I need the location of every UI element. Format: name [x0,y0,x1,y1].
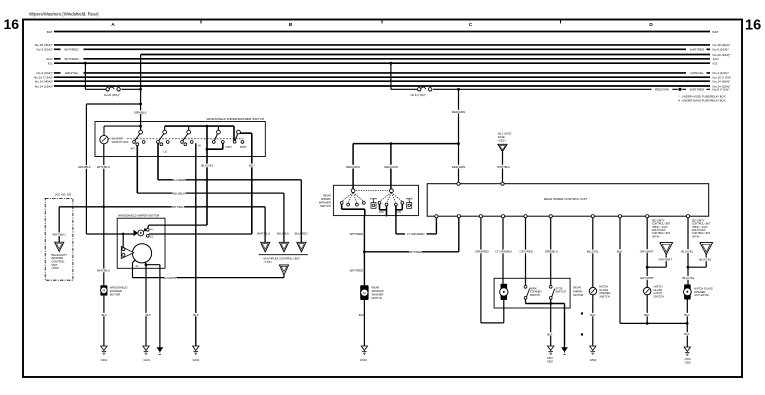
svg-text:A: A [111,22,115,28]
svg-text:M: M [363,291,366,295]
svg-text:WINDOW: WINDOW [372,289,384,293]
svg-text:<15/2>: <15/2> [498,138,507,142]
svg-text:GRY/RED: GRY/RED [520,250,533,254]
svg-text:REAR: REAR [573,286,581,290]
svg-text:ACC: ACC [46,57,53,61]
svg-text:No.8 (7.5A)*: No.8 (7.5A)* [411,93,427,97]
svg-text:BLU/YEL: BLU/YEL [201,164,213,168]
svg-text:G201: G201 [144,358,151,362]
svg-text:16: 16 [745,18,761,34]
svg-text:No.14 (40A)*: No.14 (40A)* [713,80,732,84]
svg-text:G301: G301 [101,358,108,362]
svg-text:WINDSHIELD WIPER MOTOR: WINDSHIELD WIPER MOTOR [118,214,160,218]
svg-text:No.8 (7.5A)*: No.8 (7.5A)* [713,88,731,92]
svg-text:GLASS: GLASS [599,288,608,292]
svg-text:BLU: BLU [249,164,255,168]
svg-text:WHT/RED: WHT/RED [64,57,79,61]
svg-text:GRN/BLK: GRN/BLK [78,165,91,169]
svg-text:G401: G401 [193,358,200,362]
svg-text:LT GRN/RED: LT GRN/RED [407,232,425,236]
svg-text:BLK: BLK [193,313,198,317]
svg-text:INT: INT [131,147,136,151]
svg-text:B: B [289,22,293,28]
svg-text:GLASS: GLASS [654,288,663,292]
svg-text:STANDBY: STANDBY [530,290,543,294]
svg-text:STOP: STOP [555,286,562,290]
svg-text:BLK: BLK [590,313,595,317]
svg-text:OPENER: OPENER [694,290,705,294]
svg-text:GRN/YEL: GRN/YEL [690,71,704,75]
svg-text:BLU/BLK: BLU/BLK [277,232,289,236]
svg-text:OFF: OFF [379,211,384,214]
svg-text:HATCH: HATCH [599,284,608,288]
svg-text:LO: LO [150,234,154,238]
svg-text:BLU/BLK: BLU/BLK [173,191,185,195]
svg-text:BLK: BLK [146,313,151,317]
svg-text:No.20 (20A)*: No.20 (20A)* [104,93,121,97]
svg-text:ACC: ACC [713,57,720,61]
svg-text:<B7/8>: <B7/8> [692,235,701,238]
svg-text:SWITCH: SWITCH [530,293,541,297]
svg-text:SWITCH: SWITCH [320,204,331,208]
svg-text:WHT/RED: WHT/RED [349,268,363,272]
svg-text:# : UNDER-DASH FUSE/RELAY BOX: # : UNDER-DASH FUSE/RELAY BOX [678,98,725,102]
svg-text:OPENER: OPENER [599,291,610,295]
svg-text:RED/GRN: RED/GRN [346,165,360,169]
svg-text:BLK: BLK [102,313,107,317]
svg-text:WHT/BLU: WHT/BLU [97,165,110,169]
svg-text:HATCH GLASS: HATCH GLASS [694,286,713,290]
svg-text:G304: G304 [360,358,367,362]
svg-text:WHT/BLU: WHT/BLU [97,269,110,273]
svg-text:LO: LO [164,149,168,153]
svg-text:REAR: REAR [323,193,331,197]
svg-text:MOTOR: MOTOR [110,293,120,297]
svg-text:ON: ON [397,211,401,214]
svg-text:BLK: BLK [547,332,552,336]
svg-text:G502: G502 [547,361,554,364]
svg-text:C: C [469,22,473,28]
svg-text:GRN/YEL: GRN/YEL [65,71,79,75]
svg-text:BLK: BLK [684,332,689,336]
svg-text:IG1: IG1 [48,62,53,66]
svg-text:MIST: MIST [226,145,233,149]
svg-text:REAR WIPER CONTROL UNIT: REAR WIPER CONTROL UNIT [544,197,588,201]
svg-text:WHT/RED: WHT/RED [409,250,423,254]
svg-text:BLK: BLK [684,313,689,317]
svg-text:IG1: IG1 [713,62,718,66]
svg-text:BAT: BAT [713,30,719,34]
svg-text:No.18 (30A)*: No.18 (30A)* [713,43,732,47]
svg-text:HI: HI [150,228,153,232]
svg-text:<17/5>: <17/5> [264,260,273,264]
svg-text:BLK: BLK [359,313,364,317]
svg-text:GRY/WHT: GRY/WHT [658,258,672,262]
svg-text:WIPER: WIPER [573,289,582,293]
svg-text:G504: G504 [590,358,597,362]
svg-text:No.9 (10A)*: No.9 (10A)* [37,48,54,52]
svg-text:BLU/YEL: BLU/YEL [587,250,599,254]
svg-text:Wipers/Washers (Windshield, Re: Wipers/Washers (Windshield, Rear) [29,12,99,17]
svg-text:BLK: BLK [617,249,623,253]
svg-text:WASHER: WASHER [112,136,124,140]
svg-text:G502: G502 [685,362,692,365]
svg-text:WHT/BLU: WHT/BLU [52,233,65,237]
svg-text:BLU/YEL: BLU/YEL [682,276,694,280]
svg-text:WHT/BLU: WHT/BLU [171,205,184,209]
svg-text:RED/GRN: RED/GRN [452,165,466,169]
svg-text:WIPER/: WIPER/ [321,197,331,201]
svg-text:<15/2>: <15/2> [51,266,60,270]
svg-text:No.14 (15A)*: No.14 (15A)* [35,84,54,88]
svg-text:SWITCH:OFF: SWITCH:OFF [112,140,129,144]
svg-text:MULTIPLEX CONTROL UNIT: MULTIPLEX CONTROL UNIT [264,256,301,260]
svg-text:MOTOR: MOTOR [372,296,382,300]
svg-text:ACTUATOR: ACTUATOR [694,293,708,297]
svg-text:(KG, KE, KF): (KG, KE, KF) [55,193,71,197]
svg-text:BLU/WHT: BLU/WHT [163,276,176,280]
svg-text:WASHER: WASHER [319,201,331,205]
svg-text:WHT/BLU: WHT/BLU [257,232,270,236]
svg-text:No.14 (40A)*: No.14 (40A)* [35,80,54,84]
svg-text:SWITCH: SWITCH [599,295,610,299]
svg-text:HATCH: HATCH [654,284,663,288]
svg-text:WASHER: WASHER [372,293,384,297]
svg-text:WHT/RED: WHT/RED [690,48,705,52]
svg-text:No.2 (10A)*: No.2 (10A)* [498,132,512,136]
svg-text:BLK: BLK [644,313,649,317]
svg-text:GRY/WHT: GRY/WHT [640,249,654,253]
svg-text:GRN/BLK: GRN/BLK [134,110,147,114]
svg-text:RED/GRN: RED/GRN [655,88,669,92]
svg-text:16: 16 [4,16,20,32]
svg-text:HI: HI [198,143,201,147]
svg-text:GRN/RED: GRN/RED [475,250,489,254]
svg-text:BLU/RED: BLU/RED [172,178,185,182]
svg-text:MOTOR: MOTOR [573,293,583,297]
svg-text:LATCH: LATCH [654,291,663,295]
svg-text:No.9 (10A)*: No.9 (10A)* [713,48,730,52]
svg-text:GRN/BLU: GRN/BLU [545,250,558,254]
svg-text:BLU/YEL: BLU/YEL [699,258,711,262]
svg-text:LT GRN/BLK: LT GRN/BLK [495,250,512,254]
svg-text:RED/GRN: RED/GRN [452,110,466,114]
svg-text:REAR: REAR [372,285,380,289]
svg-text:WHT/BLU: WHT/BLU [497,165,510,169]
svg-text:GRY/WHT: GRY/WHT [640,276,654,280]
svg-text:BLU/RED: BLU/RED [295,232,308,236]
svg-text:WINDSHIELD WIPER/WASHER SWITCH: WINDSHIELD WIPER/WASHER SWITCH [206,117,264,121]
svg-text:No.18 (30A)*: No.18 (30A)* [35,43,54,47]
svg-text:WHT/RED: WHT/RED [690,88,705,92]
svg-text:SWITCH: SWITCH [555,290,566,294]
svg-text:SWITCH: SWITCH [654,295,665,299]
svg-text:RED/GRN: RED/GRN [384,165,398,169]
svg-text:MIST: MIST [240,145,247,149]
svg-text:BLU/YEL: BLU/YEL [681,249,693,253]
svg-text:D: D [649,22,653,28]
svg-text:<B7/8>: <B7/8> [652,235,661,238]
svg-text:PARK: PARK [530,286,537,290]
svg-text:WHT/RED: WHT/RED [349,232,363,236]
svg-text:BAT: BAT [47,30,53,34]
svg-text:WHT/RED: WHT/RED [64,48,79,52]
